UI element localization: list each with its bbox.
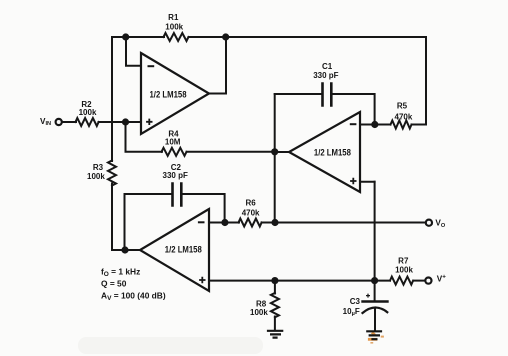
wire U2 output (274, 151, 290, 153)
svg-text:R3: R3 (93, 163, 104, 172)
resistor R4 (162, 148, 187, 156)
op-amp U1 minus pin (148, 65, 155, 67)
ground below C3 (orange highlighted) (366, 331, 384, 343)
resistor R7 (390, 277, 413, 285)
wire C1 right lead (331, 94, 374, 125)
wire left vertical x=112 lower (112, 184, 126, 251)
wire C3 top lead (374, 281, 376, 302)
svg-text:R5: R5 (397, 102, 408, 111)
svg-text:470k: 470k (242, 208, 260, 217)
wire node A drop to R4 line (126, 122, 163, 152)
svg-text:100k: 100k (87, 172, 105, 181)
node R1 right (222, 33, 229, 40)
node R1 left (122, 33, 129, 40)
wire C1 left lead (275, 93, 323, 95)
wire R2 to U1 plus input (99, 121, 142, 123)
ground below R8 (267, 331, 283, 338)
svg-text:1/2 LM158: 1/2 LM158 (165, 245, 202, 255)
svg-text:R7: R7 (398, 256, 409, 265)
svg-text:AV = 100 (40 dB): AV = 100 (40 dB) (101, 291, 166, 303)
svg-text:100k: 100k (395, 265, 413, 274)
wire U2 minus input to R5 (359, 124, 391, 126)
op-amp U3 minus pin (198, 221, 205, 223)
svg-text:C3: C3 (350, 297, 361, 306)
wire top horizontal right of R1 (189, 36, 427, 38)
wire R8 top lead (274, 281, 276, 294)
svg-text:10M: 10M (165, 138, 181, 147)
wire vertical x=374.6 down to V+ node (374, 182, 376, 282)
resistor R1 (164, 33, 189, 41)
scan shadow artifact bottom-left (78, 337, 263, 354)
wire top-left horizontal (112, 36, 164, 38)
op-amp U3 plus pin (199, 277, 205, 283)
wire vertical x=274.7 down to R6 node (274, 151, 276, 223)
resistor R3 (108, 161, 116, 186)
node C2 to R6 (221, 219, 228, 226)
svg-text:1/2 LM158: 1/2 LM158 (314, 147, 351, 157)
op-amp U2 (289, 112, 360, 192)
svg-text:100k: 100k (79, 108, 97, 117)
op-amp U2 minus pin (350, 123, 357, 125)
svg-text:R1: R1 (168, 13, 179, 22)
node R8 top (271, 277, 278, 284)
wire U1 minus input drop (126, 37, 141, 66)
capacitor C3 plus mark (366, 294, 370, 298)
op-amp U1 plus pin (146, 119, 152, 125)
resistor R8 (271, 293, 279, 317)
wire left vertical x=112 upper (111, 37, 113, 161)
wire vertical x=274.7 up to C1 (274, 94, 276, 153)
svg-text:C1: C1 (322, 62, 333, 71)
node R6 right (271, 219, 278, 226)
terminal V+ (425, 278, 431, 284)
op-amp U3 (140, 209, 209, 291)
wire U3 plus input line to R7 node (208, 280, 390, 282)
node C3 top (371, 277, 378, 284)
op-amp U2 plus pin (350, 178, 356, 184)
svg-text:R6: R6 (245, 199, 256, 208)
svg-text:330 pF: 330 pF (163, 171, 188, 180)
terminal Vo (426, 220, 432, 226)
resistor R2 (76, 118, 99, 126)
capacitor C3 plates (363, 300, 388, 302)
wire R6 to Vo terminal (262, 222, 426, 224)
svg-text:100k: 100k (165, 22, 183, 31)
terminal Vin (56, 119, 62, 125)
wire R8 bottom lead (274, 317, 276, 331)
wire R7 to V+ terminal (414, 280, 426, 282)
capacitor C2 (173, 184, 182, 206)
wire R4 to U2 output node (187, 151, 276, 153)
resistor R5 (391, 121, 412, 129)
node U2 output (271, 148, 278, 155)
node U3 output (121, 246, 128, 253)
svg-text:1/2 LM158: 1/2 LM158 (150, 90, 187, 100)
svg-text:470k: 470k (395, 112, 413, 121)
wire C2 right lead (181, 194, 224, 223)
wire right vertical down to R5 (412, 37, 427, 125)
op-amp U1 (141, 53, 209, 134)
wire C3 bottom lead (374, 308, 376, 331)
svg-text:10µF: 10µF (343, 307, 360, 317)
capacitor C1 (323, 84, 332, 106)
node U1 plus input (122, 118, 129, 125)
svg-text:100k: 100k (250, 308, 268, 317)
wire vertical x=124.5 up to C2 (124, 194, 126, 251)
wire C2 left lead (125, 193, 173, 195)
wire Vin to R2 (62, 121, 76, 123)
node U2 minus input (371, 121, 378, 128)
wire U2 plus input (359, 181, 375, 183)
wire U3 minus input to R6 (208, 222, 239, 224)
svg-text:330 pF: 330 pF (313, 71, 338, 80)
resistor R6 (239, 219, 262, 227)
wire U3 output (124, 249, 141, 251)
wire U1 output (209, 37, 226, 94)
svg-text:Q = 50: Q = 50 (101, 278, 127, 288)
